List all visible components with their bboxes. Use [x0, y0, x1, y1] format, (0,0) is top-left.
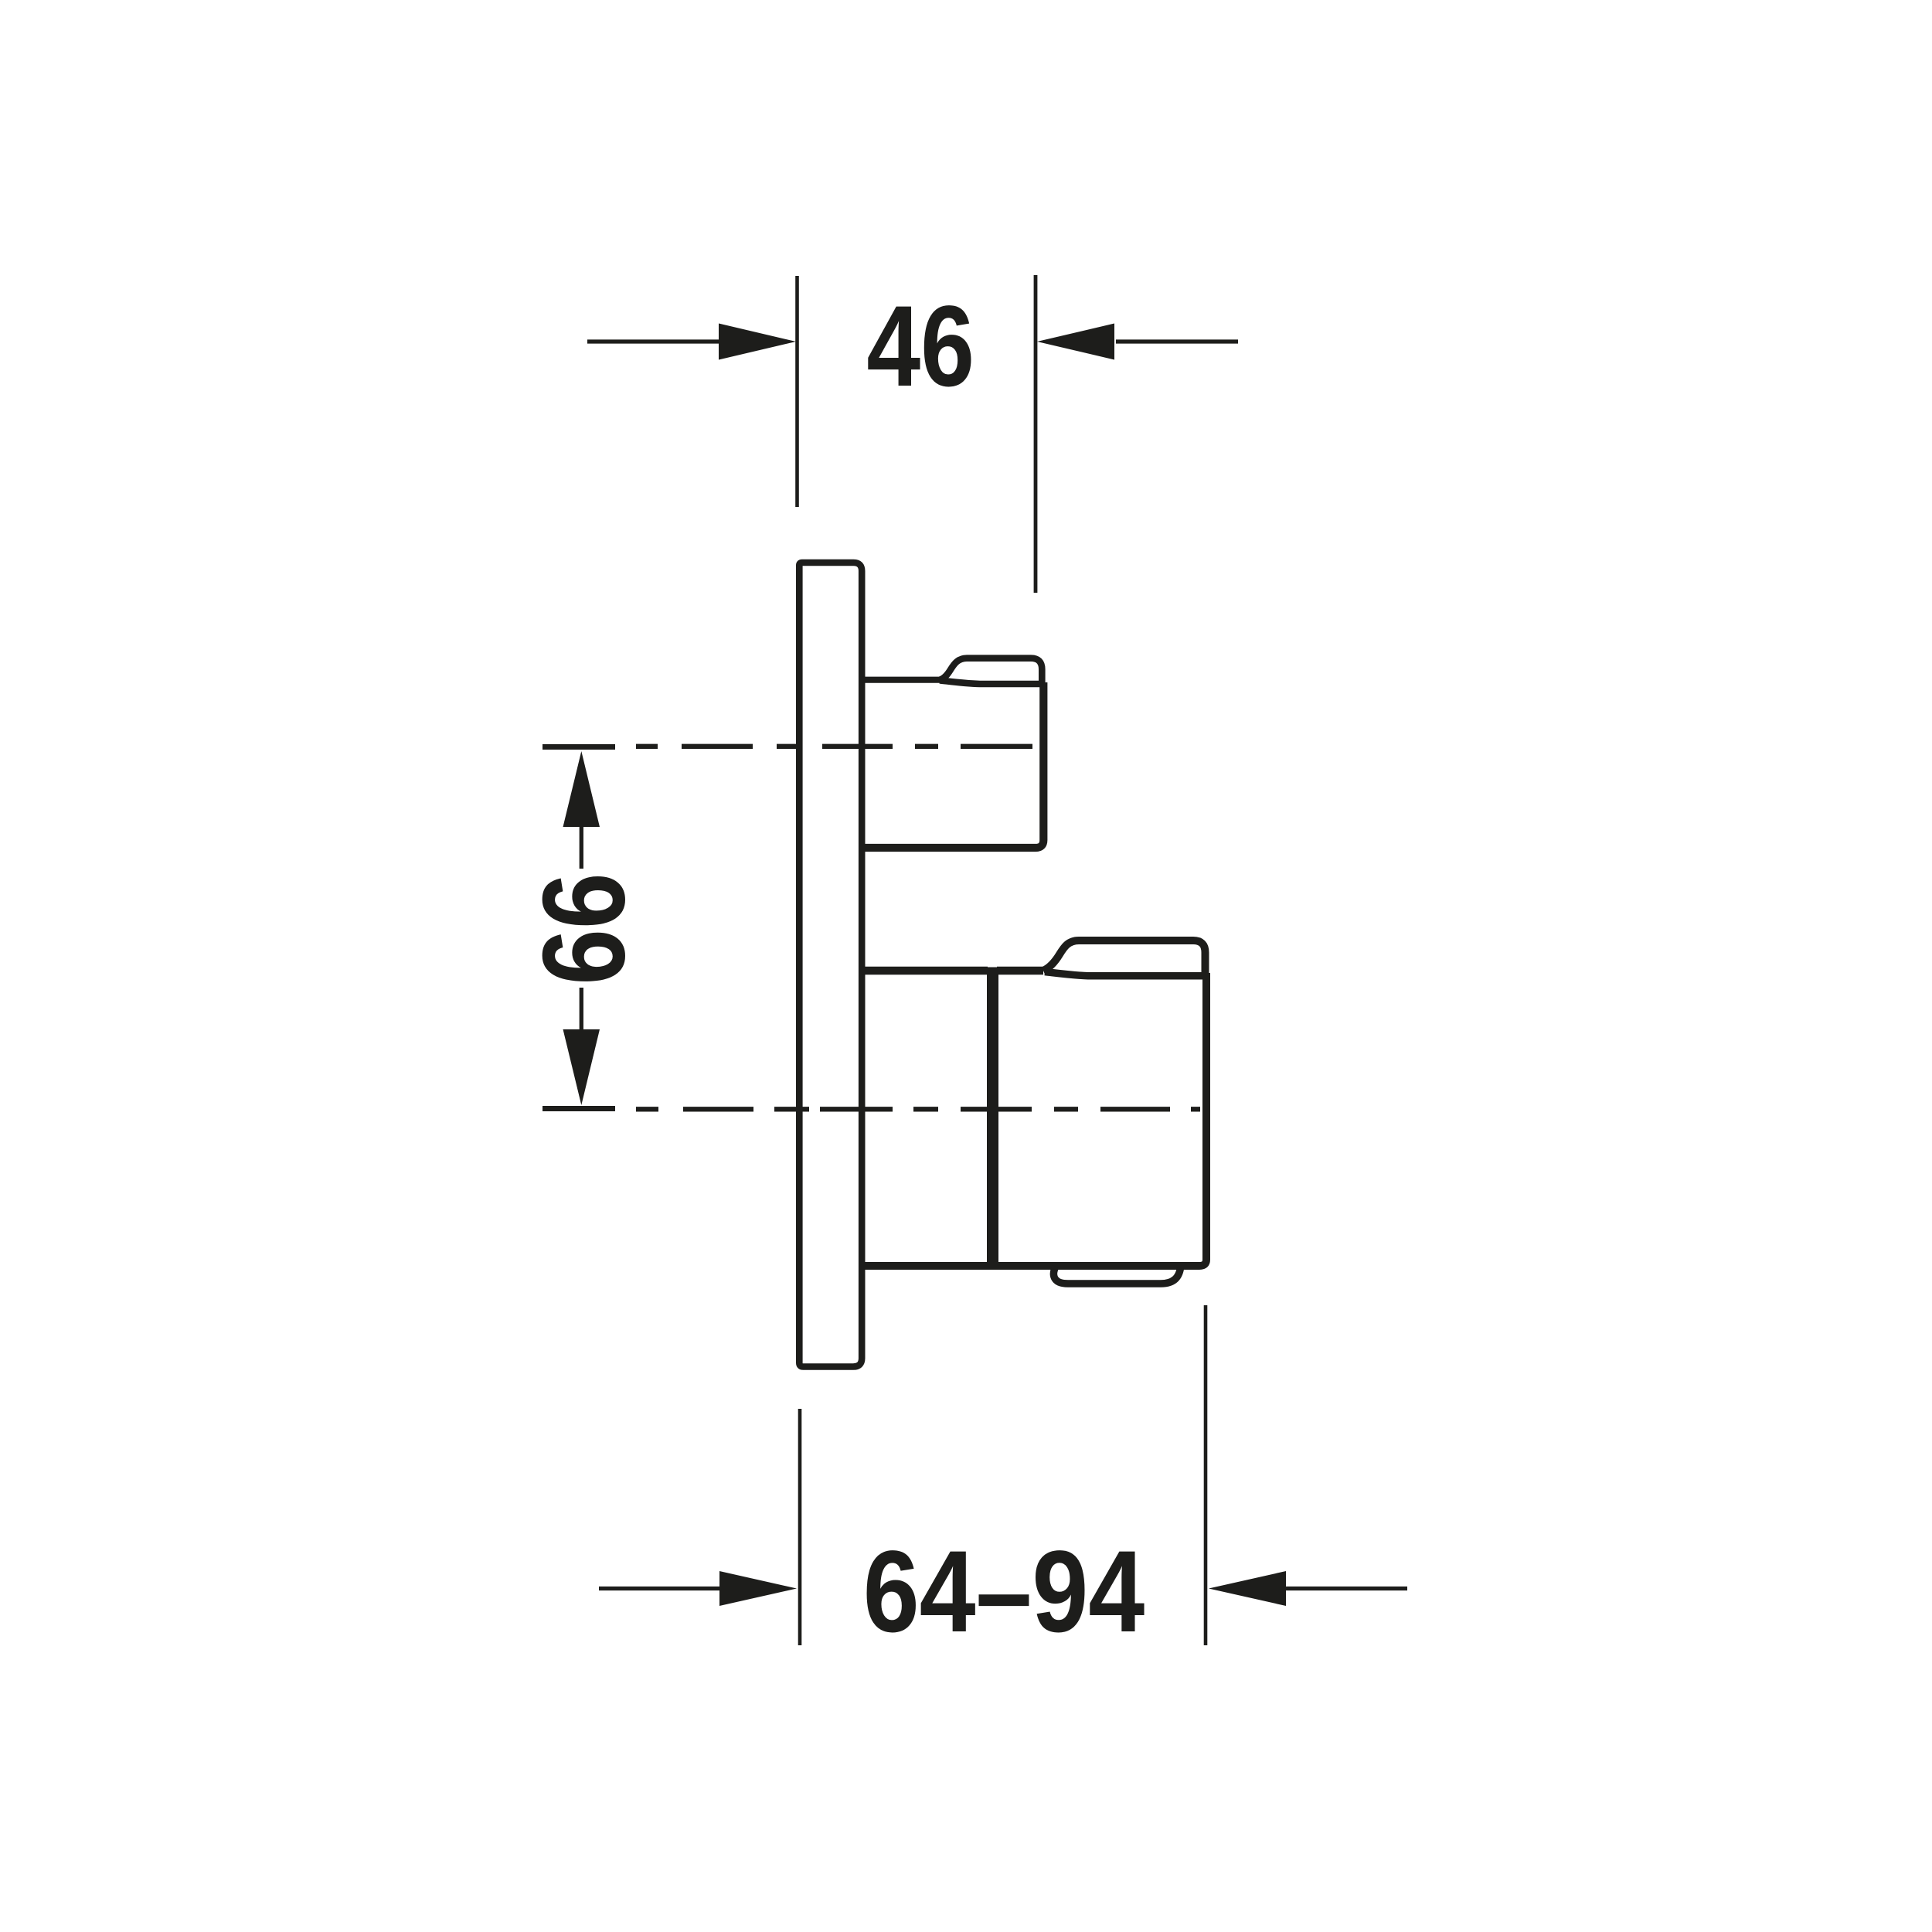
- dim 64-94 left arrow tail: [599, 1587, 723, 1590]
- dim 46 left arrow tail: [587, 339, 723, 343]
- top handle neck top edge: [862, 677, 940, 683]
- wall plate (side profile): [799, 563, 862, 1367]
- dim 46 right arrow tail: [1116, 339, 1238, 343]
- dim 66 dimension ticks: [543, 747, 615, 1109]
- bottom handle right edge, bottom edge and neck bottom edge: [862, 973, 1207, 1266]
- top handle barrel right and bottom edge: [865, 682, 1043, 848]
- dim 64-94 left extension line: [798, 1409, 802, 1645]
- top handle barrel top edge: [940, 680, 1040, 684]
- dim 64-94 right arrow tail: [1285, 1587, 1407, 1590]
- svg-text:66: 66: [518, 872, 648, 985]
- svg-text:64–94: 64–94: [863, 1526, 1145, 1656]
- dim 46 left extension line: [795, 276, 799, 507]
- top handle lever cap outline: [940, 658, 1042, 685]
- dim 66 up arrowhead: [563, 751, 600, 827]
- dim 64-94 right extension line: [1204, 1305, 1208, 1645]
- svg-text:46: 46: [866, 282, 975, 410]
- bottom handle foot tab: [1053, 1267, 1180, 1284]
- dim 64-94 left arrowhead: [719, 1571, 797, 1606]
- dim 66 down arrowhead: [563, 1029, 600, 1105]
- bottom handle top edge continuation: [997, 967, 1043, 975]
- bottom handle back edge: [987, 968, 998, 1269]
- bottom handle neck top edge: [862, 967, 988, 975]
- centerline of bottom handle (dash-dot): [636, 1107, 1200, 1111]
- bottom handle lever cap outline: [1043, 940, 1206, 977]
- dim 46 left arrowhead: [719, 324, 796, 360]
- dim 66 up arrow shaft: [580, 823, 583, 869]
- bottom handle barrel top edge: [1045, 972, 1202, 976]
- dim 46 right arrowhead: [1037, 324, 1114, 360]
- dim 66 down arrow shaft: [580, 988, 583, 1033]
- dim 46 right extension line: [1034, 275, 1038, 593]
- dim 64-94 right arrowhead: [1209, 1571, 1286, 1606]
- centerline of top handle (dash-dot): [636, 744, 1032, 749]
